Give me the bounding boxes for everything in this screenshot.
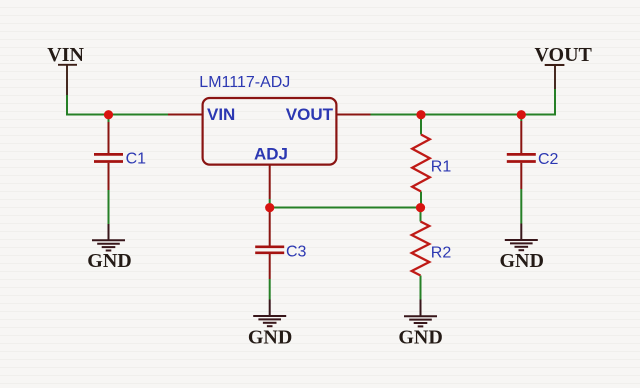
svg-text:C1: C1	[126, 150, 147, 167]
svg-text:R2: R2	[431, 245, 452, 262]
svg-text:ADJ: ADJ	[254, 145, 288, 164]
svg-text:R1: R1	[431, 159, 452, 176]
svg-text:GND: GND	[398, 327, 442, 349]
svg-text:C3: C3	[286, 244, 307, 261]
svg-text:VOUT: VOUT	[286, 105, 334, 124]
svg-text:VIN: VIN	[207, 105, 235, 124]
svg-text:C2: C2	[538, 151, 559, 168]
svg-text:VIN: VIN	[47, 44, 84, 66]
svg-text:LM1117-ADJ: LM1117-ADJ	[199, 74, 290, 91]
svg-text:GND: GND	[248, 327, 292, 349]
svg-text:GND: GND	[499, 250, 543, 272]
svg-text:VOUT: VOUT	[535, 44, 593, 66]
svg-text:GND: GND	[87, 250, 131, 272]
